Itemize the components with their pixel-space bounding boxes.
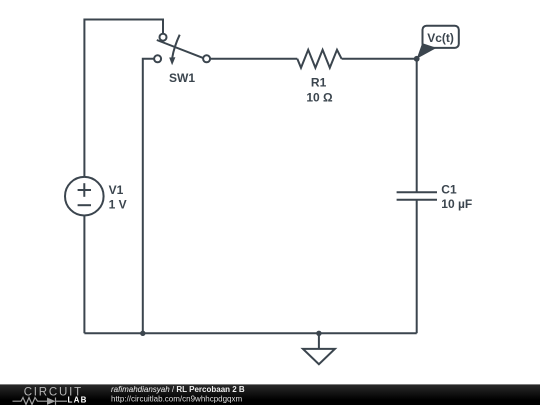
- logo diode: [47, 398, 56, 405]
- resistor R1: [297, 50, 341, 68]
- svg-text:http://circuitlab.com/cn9whhcp: http://circuitlab.com/cn9whhcpdgqxm: [111, 394, 243, 403]
- svg-text:LAB: LAB: [68, 395, 88, 404]
- switch SW1: [154, 34, 210, 63]
- probe flag Vc(t) box: [423, 26, 459, 48]
- svg-text:R1: R1: [311, 76, 327, 90]
- junction dot ground: [316, 331, 321, 336]
- wire top-left loop: [84, 20, 163, 178]
- switch arrow head: [169, 57, 175, 65]
- wire left lower (V1 to bottom): [83, 216, 85, 334]
- svg-text:10 Ω: 10 Ω: [306, 91, 333, 105]
- voltage source V1: [65, 177, 104, 216]
- ground: [303, 333, 335, 364]
- svg-text:V1: V1: [109, 183, 124, 197]
- probe flag tail: [417, 43, 437, 59]
- capacitor C1: [397, 192, 437, 200]
- wire right (node to capacitor): [416, 59, 418, 192]
- wire resistor to node: [342, 58, 417, 60]
- svg-text:SW1: SW1: [169, 71, 195, 85]
- wire switch left branch: [143, 59, 154, 334]
- wire capacitor to bottom: [416, 200, 418, 334]
- svg-text:Vc(t): Vc(t): [427, 31, 454, 45]
- wire switch right to resistor: [210, 58, 297, 60]
- logo wire squiggle: [13, 398, 68, 405]
- junction dot switch branch / bottom wire: [140, 331, 145, 336]
- node dot at Vc probe: [414, 56, 420, 62]
- svg-text:1 V: 1 V: [109, 198, 127, 212]
- svg-text:C1: C1: [441, 183, 457, 197]
- wire bottom: [84, 332, 416, 334]
- svg-text:10 µF: 10 µF: [441, 197, 472, 211]
- svg-text:rafimahdiansyah / RL Percobaan: rafimahdiansyah / RL Percobaan 2 B: [111, 385, 245, 394]
